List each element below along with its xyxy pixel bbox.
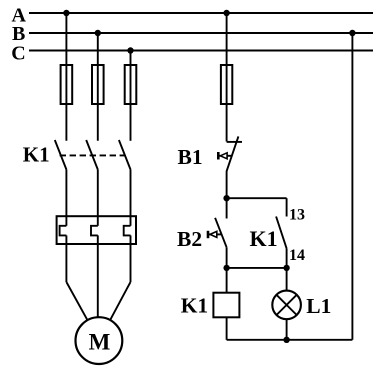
svg-text:L1: L1: [306, 294, 331, 318]
svg-text:B2: B2: [177, 227, 202, 251]
svg-text:M: M: [89, 329, 111, 354]
svg-text:13: 13: [289, 206, 305, 223]
svg-text:C: C: [11, 42, 25, 64]
svg-text:K1: K1: [250, 226, 278, 251]
svg-text:K1: K1: [23, 143, 50, 167]
svg-text:14: 14: [289, 247, 305, 264]
svg-text:B1: B1: [178, 145, 203, 169]
svg-text:K1: K1: [181, 293, 208, 317]
